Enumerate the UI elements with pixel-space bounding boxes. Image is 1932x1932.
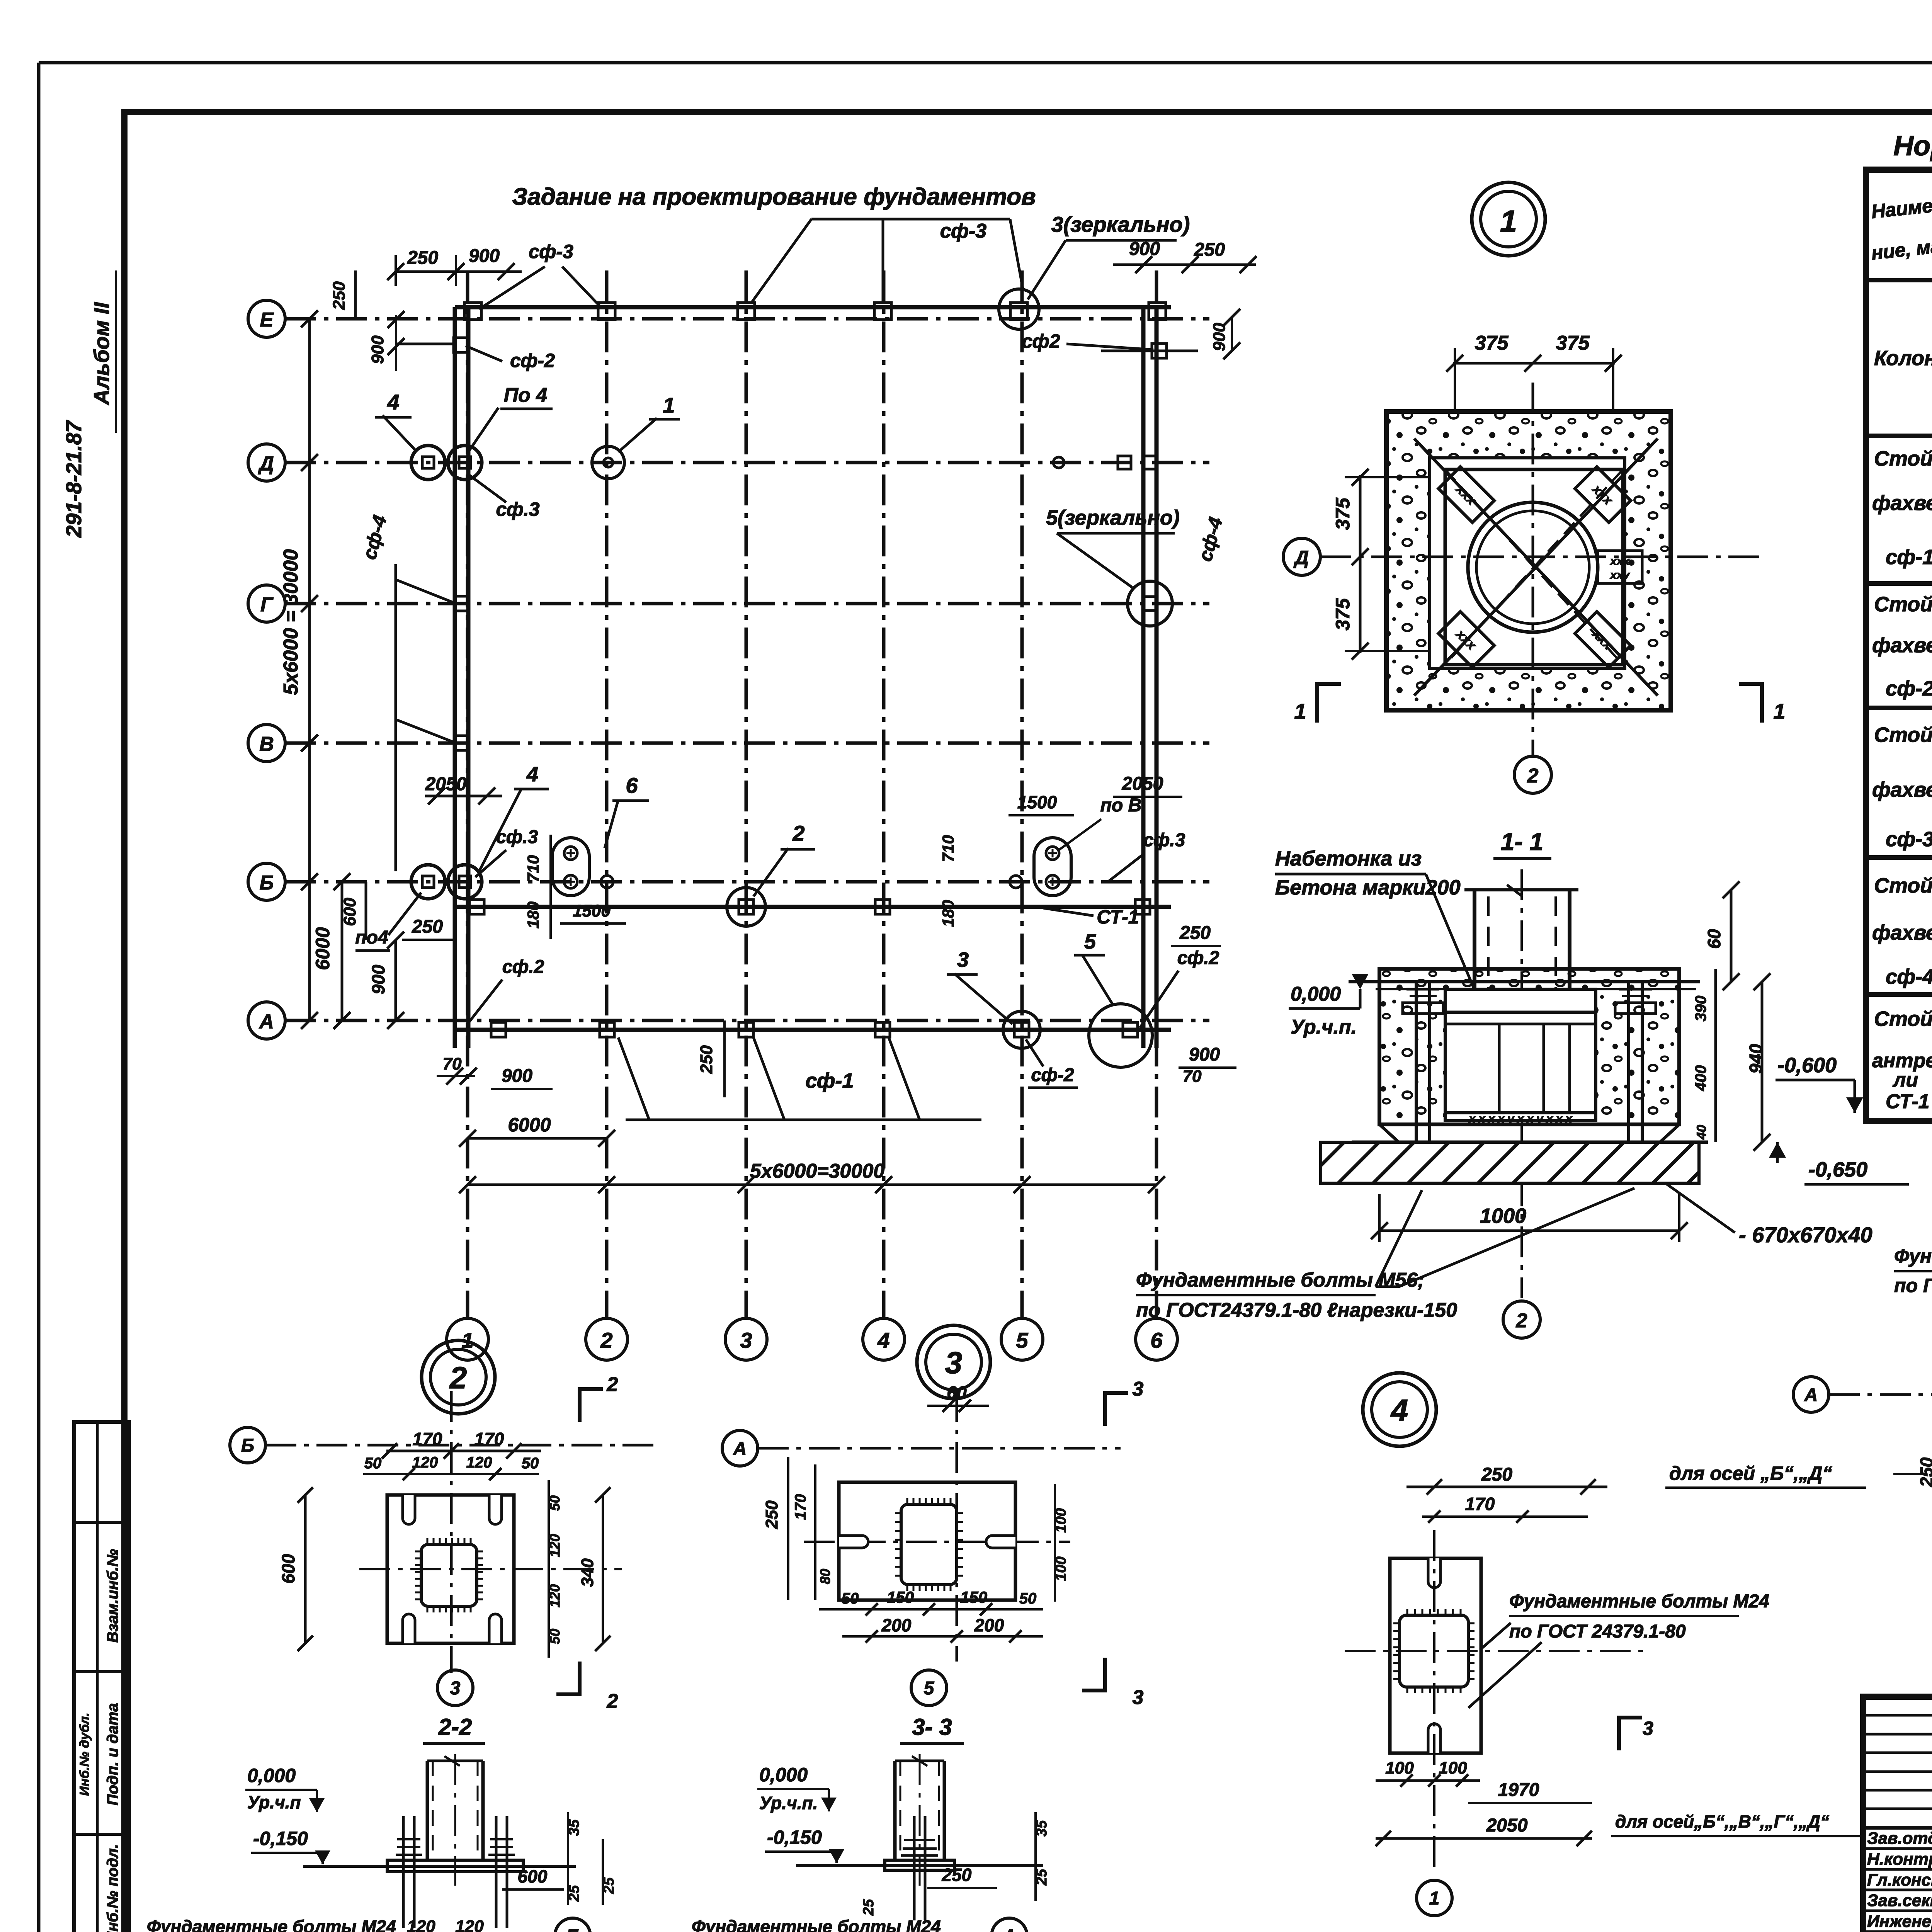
label ST-1 bbox=[1043, 906, 1139, 928]
svg-text:375: 375 bbox=[1556, 332, 1590, 354]
section 2-2 bottom dims bbox=[394, 1917, 508, 1932]
plates on axis D near column 6 bbox=[1053, 456, 1156, 469]
leader sf-3 left top bbox=[479, 241, 601, 309]
svg-text:5: 5 bbox=[1016, 1328, 1028, 1352]
section 3-3 bolt bbox=[901, 1816, 938, 1920]
svg-text:340: 340 bbox=[578, 1558, 597, 1587]
detail 2 axis B circle bbox=[230, 1427, 265, 1463]
detail 3 axis line bbox=[758, 1447, 1121, 1450]
svg-text:ли: ли bbox=[1892, 1069, 1918, 1091]
dim 900 left below B bbox=[368, 932, 404, 1029]
detail 1 circle on axis D column 2 bbox=[592, 446, 624, 479]
detail 2 callout circle bbox=[422, 1340, 495, 1414]
svg-text:170: 170 bbox=[1465, 1494, 1495, 1514]
svg-text:Колонна: Колонна bbox=[1874, 347, 1932, 370]
detail 1 inner circle bbox=[1468, 502, 1598, 632]
level mark 0.000 bbox=[1289, 974, 1369, 1038]
detail 2 circle column 3 axis B bbox=[727, 888, 765, 926]
dim 250 rotated mid bottom bbox=[697, 1020, 724, 1097]
leader sf-2 bottom left bbox=[468, 957, 544, 1024]
svg-text:А: А bbox=[733, 1439, 747, 1459]
section 1-1 column shaft bbox=[1464, 885, 1578, 1012]
detail 5 left dim 250 bbox=[1917, 1403, 1932, 1539]
svg-text:А: А bbox=[259, 1010, 274, 1033]
svg-text:А: А bbox=[1804, 1385, 1818, 1405]
leader sf-2 right bottom bbox=[1140, 948, 1219, 1028]
column axis 1 bbox=[447, 270, 488, 1360]
svg-text:4: 4 bbox=[1390, 1393, 1408, 1427]
detail 4 dims top bbox=[1406, 1463, 1866, 1523]
svg-text:Стойка: Стойка bbox=[1874, 723, 1932, 747]
svg-text:1: 1 bbox=[1500, 204, 1517, 238]
plate 670x670x40 label bbox=[1665, 1183, 1872, 1247]
svg-text:250: 250 bbox=[942, 1865, 972, 1885]
svg-text:710: 710 bbox=[939, 835, 957, 862]
detail 3 circle column 5 axis A bbox=[1003, 1011, 1040, 1048]
detail 3 bottom axis circle 5 bbox=[911, 1670, 947, 1706]
svg-text:3: 3 bbox=[945, 1345, 963, 1380]
dims near oval left bbox=[524, 835, 626, 939]
section 2-2 column bbox=[427, 1754, 483, 1886]
detail 3 section mark top bbox=[1105, 1378, 1144, 1426]
svg-text:3: 3 bbox=[450, 1678, 461, 1699]
svg-text:600: 600 bbox=[518, 1866, 548, 1886]
detail circles on axis D column 1 bbox=[411, 446, 482, 480]
svg-text:Зав.отд: Зав.отд bbox=[1867, 1829, 1932, 1848]
svg-text:70: 70 bbox=[1183, 1067, 1202, 1086]
dim 1000 under section bbox=[1371, 1194, 1688, 1242]
svg-text:Набетонка из: Набетонка из bbox=[1275, 847, 1422, 870]
svg-text:Альбом II: Альбом II bbox=[89, 302, 114, 406]
base plate sf-2 below axis E right bbox=[1101, 344, 1198, 358]
leader sf-2 left top bbox=[466, 346, 555, 371]
svg-text:сф-1: сф-1 bbox=[1886, 546, 1932, 569]
svg-text:150: 150 bbox=[887, 1588, 914, 1606]
svg-text:50: 50 bbox=[1019, 1590, 1037, 1607]
axis А bbox=[248, 1002, 1209, 1039]
svg-text:-0,650: -0,650 bbox=[1808, 1158, 1867, 1181]
leader sf-1 bottom bracket bbox=[618, 1037, 981, 1120]
section 1-1 bottom axis circle 2 bbox=[1503, 1301, 1540, 1338]
detail 1 vertical axis 2 bbox=[1514, 383, 1551, 793]
svg-text:4: 4 bbox=[877, 1328, 889, 1352]
svg-text:0,000: 0,000 bbox=[1291, 983, 1341, 1005]
detail 2 axis line bbox=[265, 1444, 657, 1447]
svg-text:Стойка: Стойка bbox=[1874, 874, 1932, 897]
svg-text:200: 200 bbox=[881, 1615, 912, 1635]
svg-text:170: 170 bbox=[413, 1429, 442, 1449]
detail 5 mirrored circle on axis G column 6 bbox=[1128, 581, 1172, 626]
column axis 4 bbox=[863, 270, 905, 1360]
svg-text:40: 40 bbox=[1694, 1125, 1709, 1140]
svg-text:по4: по4 bbox=[355, 927, 388, 948]
svg-text:180: 180 bbox=[524, 901, 542, 929]
svg-text:Стойка: Стойка bbox=[1874, 447, 1932, 470]
svg-text:сф.3: сф.3 bbox=[496, 498, 539, 520]
detail 2 vertical axis bbox=[450, 1391, 453, 1673]
svg-text:для осей „Б“,„Д“: для осей „Б“,„Д“ bbox=[1669, 1463, 1832, 1484]
svg-text:50: 50 bbox=[842, 1590, 859, 1607]
detail 3 right dims bbox=[1053, 1484, 1069, 1602]
detail 2 dims right bbox=[547, 1480, 611, 1658]
axis Е bbox=[248, 300, 1209, 337]
detail 1 diagonals bbox=[1414, 439, 1658, 696]
svg-text:Д: Д bbox=[258, 452, 274, 475]
section mark 1 right bbox=[1739, 682, 1786, 723]
dim 250 bottom left bbox=[402, 917, 456, 940]
detail 1 top dims 375 375 bbox=[1446, 332, 1622, 413]
leader sf-3 axis B right bbox=[1109, 830, 1185, 881]
svg-text:1500: 1500 bbox=[573, 901, 611, 920]
svg-text:4: 4 bbox=[526, 763, 538, 786]
callout 5 mirrored bbox=[1046, 506, 1180, 587]
detail 3 vertical axis bbox=[956, 1391, 958, 1662]
base plate and stiffeners bbox=[1445, 1012, 1596, 1125]
svg-text:120: 120 bbox=[455, 1917, 484, 1932]
detail 3 section mark bottom bbox=[1082, 1658, 1144, 1709]
svg-text:СТ-1: СТ-1 bbox=[1097, 906, 1139, 928]
svg-text:120: 120 bbox=[466, 1454, 492, 1471]
dims near oval right bbox=[939, 774, 1182, 927]
section 2-2 axis circle B bbox=[555, 1918, 590, 1932]
svg-text:100: 100 bbox=[1439, 1759, 1467, 1777]
svg-text:Фундаментные болты М24: Фундаментные болты М24 bbox=[692, 1917, 941, 1932]
svg-text:По 4: По 4 bbox=[504, 384, 548, 406]
svg-text:6000: 6000 bbox=[312, 927, 333, 970]
svg-text:5(зеркально): 5(зеркально) bbox=[1046, 506, 1180, 529]
svg-text:600: 600 bbox=[340, 898, 359, 926]
svg-text:Е: Е bbox=[260, 309, 274, 331]
svg-text:50: 50 bbox=[522, 1455, 539, 1472]
base plates on beam below axis B bbox=[469, 900, 1150, 914]
section 2-2 right dims bbox=[502, 1812, 617, 1905]
svg-text:Нормативные нагрузки на фунд: Нормативные нагрузки на фундаменты колон… bbox=[1893, 131, 1932, 162]
detail 4 axes bbox=[1345, 1530, 1646, 1870]
svg-text:фахверка: фахверка bbox=[1872, 634, 1932, 657]
section 2-2 base bbox=[303, 1860, 576, 1872]
table header names bbox=[1870, 182, 1932, 277]
small cross circles on axis B bbox=[601, 876, 1022, 888]
svg-text:900: 900 bbox=[368, 964, 388, 994]
left main dimension 5x6000 bbox=[280, 310, 318, 1029]
level -0.650 bbox=[1769, 1142, 1909, 1184]
svg-text:Инб.№ дубл.: Инб.№ дубл. bbox=[77, 1713, 92, 1796]
svg-text:80: 80 bbox=[817, 1569, 833, 1584]
beam line below axis A (SF-1) bbox=[455, 1028, 1171, 1032]
svg-text:250: 250 bbox=[697, 1045, 716, 1074]
svg-text:35: 35 bbox=[566, 1819, 582, 1836]
svg-text:375: 375 bbox=[1475, 332, 1509, 354]
svg-text:сф.2: сф.2 bbox=[1177, 948, 1219, 968]
svg-text:-0,150: -0,150 bbox=[253, 1828, 308, 1849]
svg-text:35: 35 bbox=[1034, 1820, 1050, 1837]
top foundation beam along axis E bbox=[455, 305, 1171, 310]
callout po4 bottom left bbox=[355, 893, 421, 951]
svg-text:сф.2: сф.2 bbox=[502, 957, 544, 977]
leader sf-2 bottom right bbox=[1026, 1039, 1078, 1088]
svg-text:1: 1 bbox=[1429, 1888, 1440, 1909]
svg-text:50: 50 bbox=[547, 1495, 563, 1511]
leader sf-3 top trapezoid bbox=[752, 219, 1023, 303]
svg-text:фахверка: фахверка bbox=[1872, 492, 1932, 515]
svg-text:4: 4 bbox=[387, 390, 399, 414]
svg-text:120: 120 bbox=[412, 1454, 438, 1471]
svg-text:375: 375 bbox=[1332, 598, 1354, 631]
svg-text:Задание на проектирование фунд: Задание на проектирование фундаментов bbox=[512, 184, 1036, 210]
lower slab bbox=[1352, 1124, 1708, 1142]
detail 3 mirrored circle on axis E column 5 bbox=[999, 289, 1039, 329]
detail 4 bottom dims bbox=[1376, 1759, 1866, 1846]
svg-text:3(зеркально): 3(зеркально) bbox=[1051, 212, 1190, 236]
svg-text:1: 1 bbox=[663, 393, 675, 417]
detail 3 anchor plate bbox=[901, 1504, 957, 1585]
leader sf-3 axis B left bbox=[475, 827, 538, 877]
svg-text:сф-3: сф-3 bbox=[1886, 828, 1932, 851]
detail 4 anchor plate bbox=[1400, 1615, 1468, 1687]
section 3-3 column bbox=[895, 1754, 944, 1886]
svg-text:170: 170 bbox=[474, 1429, 504, 1449]
section mark 1 left bbox=[1294, 682, 1341, 723]
svg-text:2-2: 2-2 bbox=[438, 1714, 472, 1740]
top dims 900 250 right bbox=[1113, 239, 1257, 273]
title block signatures bbox=[1867, 1828, 1932, 1932]
svg-text:СТ-1: СТ-1 bbox=[1886, 1090, 1930, 1113]
svg-text:В: В bbox=[259, 733, 274, 755]
svg-text:5: 5 bbox=[924, 1678, 935, 1699]
anchor bolt M24 label detail 4 bbox=[1468, 1591, 1769, 1708]
base plate sf-2 below axis E left bbox=[396, 338, 468, 352]
anchor bolt M56 label bbox=[1136, 1188, 1634, 1321]
svg-text:3: 3 bbox=[1133, 1686, 1144, 1709]
detail 2 anchor plate bbox=[421, 1544, 477, 1606]
svg-text:Д: Д bbox=[1293, 547, 1309, 568]
svg-text:1500: 1500 bbox=[1017, 792, 1057, 812]
svg-text:сф-2: сф-2 bbox=[510, 350, 555, 371]
anchor bolt M24 label detail 5 top bbox=[1894, 1180, 1932, 1321]
svg-text:375: 375 bbox=[1332, 497, 1354, 530]
loads table horizontal grid bbox=[1866, 236, 1932, 1101]
svg-text:900: 900 bbox=[368, 335, 387, 364]
title block frame bbox=[1863, 1697, 1932, 1932]
section 3-3 axis circle A bbox=[992, 1918, 1027, 1932]
svg-text:25: 25 bbox=[601, 1877, 617, 1894]
axis В bbox=[248, 724, 1209, 762]
left margin stamp strip bbox=[74, 1422, 129, 1932]
svg-text:25: 25 bbox=[566, 1885, 582, 1902]
dim 250 top left corner bbox=[330, 270, 355, 319]
detail 4 section mark 3 bbox=[1619, 1716, 1653, 1750]
beam line below axis B bbox=[455, 905, 1171, 909]
svg-text:сф-3: сф-3 bbox=[940, 220, 987, 242]
svg-text:сф-4: сф-4 bbox=[1886, 965, 1932, 988]
callout 4 below bbox=[479, 763, 549, 871]
dim 6000 axis B-A bbox=[312, 873, 350, 1029]
svg-text:250: 250 bbox=[1481, 1464, 1512, 1485]
foundation beam SF-4 right (double vertical) bbox=[1143, 307, 1156, 1048]
leader sf-3 axis D column1 bbox=[469, 475, 540, 520]
svg-text:900: 900 bbox=[1210, 323, 1229, 351]
anchor bolt M24 label detail 2 bbox=[147, 1917, 396, 1932]
svg-text:100: 100 bbox=[1053, 1508, 1069, 1532]
dim 250 right bbox=[1171, 923, 1221, 946]
svg-text:3: 3 bbox=[1643, 1718, 1653, 1739]
svg-text:2050: 2050 bbox=[1486, 1815, 1528, 1836]
detail 1 left dims 375 375 bbox=[1332, 469, 1430, 660]
svg-text:Гл.конст: Гл.конст bbox=[1867, 1871, 1932, 1889]
svg-text:сф-2: сф-2 bbox=[1886, 677, 1932, 700]
axis Д bbox=[248, 444, 1209, 481]
svg-text:Подп. и дата: Подп. и дата bbox=[104, 1703, 121, 1806]
svg-text:600: 600 bbox=[278, 1554, 298, 1583]
ground hatch strip bbox=[1321, 1142, 1699, 1183]
column axis 2 bbox=[586, 270, 628, 1360]
detail 2 bottom axis circle 3 bbox=[437, 1670, 473, 1706]
svg-text:по ГОСТ 24379.1- 80: по ГОСТ 24379.1- 80 bbox=[1894, 1275, 1932, 1296]
svg-text:2050: 2050 bbox=[1122, 774, 1163, 794]
svg-text:Стойка: Стойка bbox=[1874, 593, 1932, 616]
callout po4 axis D bbox=[469, 384, 553, 450]
svg-text:-0,150: -0,150 bbox=[767, 1827, 822, 1848]
svg-text:100: 100 bbox=[1385, 1759, 1414, 1777]
detail 3 bottom dims bbox=[819, 1588, 1043, 1643]
svg-text:250: 250 bbox=[412, 917, 443, 937]
svg-text:5х6000 = 30000: 5х6000 = 30000 bbox=[280, 549, 302, 695]
base plate on axis V bbox=[454, 736, 469, 750]
svg-text:Н.контр: Н.контр bbox=[1867, 1850, 1932, 1869]
svg-text:фахверка: фахверка bbox=[1872, 778, 1932, 801]
svg-text:Ур.ч.п.: Ур.ч.п. bbox=[759, 1793, 818, 1813]
svg-text:Фундаментные болты М24: Фундаментные болты М24 bbox=[1509, 1591, 1769, 1612]
detail 2 dim 600 left bbox=[278, 1487, 313, 1651]
title block left grid bbox=[1863, 1697, 1932, 1932]
table row group labels bbox=[1872, 347, 1932, 1113]
detail 2 section mark top bbox=[580, 1373, 618, 1422]
svg-text:сф2: сф2 bbox=[1022, 330, 1060, 352]
svg-text:50: 50 bbox=[364, 1455, 382, 1472]
anchor bolts left bbox=[1403, 981, 1443, 1183]
svg-text:Фундаментные болты М24: Фундаментные болты М24 bbox=[1894, 1245, 1932, 1267]
svg-text:2: 2 bbox=[1527, 765, 1539, 787]
floor line 0.000 bbox=[1349, 982, 1700, 989]
svg-text:0,000: 0,000 bbox=[759, 1764, 808, 1786]
svg-text:xxv: xxv bbox=[1609, 569, 1630, 582]
anchor group oval on axis B left bbox=[552, 838, 589, 896]
section 2-2 title bbox=[423, 1714, 485, 1743]
detail 1 big callout circle bbox=[1472, 182, 1545, 256]
callout 3 mirrored bbox=[1028, 212, 1190, 299]
svg-text:А: А bbox=[1002, 1926, 1016, 1932]
svg-text:Б: Б bbox=[566, 1926, 579, 1932]
svg-text:Ур.ч.п.: Ур.ч.п. bbox=[1291, 1016, 1357, 1038]
svg-text:1: 1 bbox=[1773, 699, 1785, 723]
svg-text:291-8-21.87: 291-8-21.87 bbox=[61, 420, 86, 538]
leader sf-4 left vertical bbox=[359, 513, 456, 871]
anchor group oval on axis B right bbox=[1034, 838, 1071, 896]
detail 1 corner anchor plates bbox=[1439, 467, 1631, 667]
svg-text:900: 900 bbox=[469, 246, 500, 266]
detail 4 plan plate bbox=[1390, 1558, 1481, 1753]
right dims of section bbox=[1692, 881, 1770, 1151]
svg-text:0,000: 0,000 bbox=[247, 1765, 296, 1786]
svg-text:250: 250 bbox=[1194, 240, 1225, 260]
dim 600 left below B bbox=[340, 882, 366, 940]
svg-text:сф-1: сф-1 bbox=[805, 1069, 854, 1092]
svg-text:6000: 6000 bbox=[508, 1114, 551, 1136]
svg-text:Стойка: Стойка bbox=[1874, 1007, 1932, 1031]
svg-text:150: 150 bbox=[960, 1588, 987, 1606]
bottom dims 70 900 left bbox=[437, 1054, 553, 1089]
dim 5x6000=30000 bottom bbox=[459, 1160, 1165, 1193]
section 2-2 levels bbox=[245, 1765, 387, 1864]
base plate on axis G bbox=[454, 596, 469, 611]
svg-text:50: 50 bbox=[547, 1629, 563, 1644]
svg-text:60: 60 bbox=[1704, 929, 1724, 949]
detail 5 circle column 6 axis A bbox=[1089, 1004, 1152, 1067]
section 2-2 bolts bbox=[396, 1816, 515, 1928]
svg-text:для осей„Б“,„В“,„Г“,„Д“: для осей„Б“,„В“,„Г“,„Д“ bbox=[1615, 1811, 1829, 1832]
svg-text:сф-3: сф-3 bbox=[529, 241, 573, 262]
svg-text:5: 5 bbox=[1084, 930, 1096, 953]
axis Б bbox=[248, 863, 1209, 900]
svg-text:по В: по В bbox=[1100, 795, 1142, 816]
svg-text:Фундаментные болты М24: Фундаментные болты М24 bbox=[147, 1917, 396, 1932]
svg-text:120: 120 bbox=[547, 1584, 563, 1607]
svg-text:2: 2 bbox=[607, 1690, 618, 1713]
svg-text:Ур.ч.п: Ур.ч.п bbox=[247, 1792, 301, 1812]
svg-text:3: 3 bbox=[740, 1328, 752, 1352]
detail 1 axis D bbox=[1283, 538, 1762, 575]
column axis 3 bbox=[725, 270, 767, 1360]
svg-text:25: 25 bbox=[861, 1899, 877, 1916]
svg-text:1- 1: 1- 1 bbox=[1501, 828, 1543, 855]
svg-text:250: 250 bbox=[330, 281, 349, 310]
svg-text:2050: 2050 bbox=[425, 774, 467, 794]
column base plates on axis E bbox=[464, 303, 1166, 320]
svg-text:710: 710 bbox=[524, 855, 542, 882]
detail 5 axis line A bbox=[1829, 1393, 1932, 1396]
svg-text:2: 2 bbox=[1516, 1310, 1527, 1332]
svg-text:2: 2 bbox=[600, 1328, 612, 1352]
detail 5 horizontal axis bbox=[1893, 1473, 1932, 1475]
dim 6000 bottom bbox=[459, 1114, 615, 1147]
svg-text:3: 3 bbox=[1133, 1378, 1144, 1400]
svg-text:Б: Б bbox=[241, 1435, 254, 1456]
detail 2 dims top bbox=[363, 1429, 541, 1480]
detail 1 foundation plan bbox=[1386, 412, 1671, 710]
svg-text:5х6000=30000: 5х6000=30000 bbox=[750, 1160, 885, 1182]
detail 2 plan plate bbox=[387, 1495, 514, 1643]
foundation beam SF-4 left (double vertical) bbox=[455, 307, 468, 1048]
top dims 250 900 left bbox=[387, 246, 522, 286]
svg-text:250: 250 bbox=[762, 1500, 781, 1529]
dim 900 right vertical below E bbox=[1210, 309, 1240, 359]
svg-text:3- 3: 3- 3 bbox=[912, 1714, 952, 1740]
leader sf-2 right top bbox=[1022, 330, 1153, 352]
svg-text:200: 200 bbox=[974, 1615, 1004, 1635]
callout 6 left bbox=[605, 773, 649, 848]
nabetonka label bbox=[1275, 847, 1480, 1003]
detail 2 section mark bottom bbox=[556, 1662, 618, 1713]
svg-text:по ГОСТ 24379.1-80: по ГОСТ 24379.1-80 bbox=[1509, 1621, 1686, 1642]
svg-text:Г: Г bbox=[260, 594, 274, 616]
callout 5 right bbox=[1074, 930, 1113, 1005]
left margin vertical label Album II bbox=[89, 270, 116, 433]
svg-text:2: 2 bbox=[449, 1361, 467, 1395]
detail 4 callout circle bbox=[1363, 1373, 1436, 1446]
svg-text:Взам.инб.№: Взам.инб.№ bbox=[104, 1549, 121, 1643]
svg-text:170: 170 bbox=[792, 1494, 809, 1520]
svg-text:250: 250 bbox=[1179, 923, 1211, 943]
